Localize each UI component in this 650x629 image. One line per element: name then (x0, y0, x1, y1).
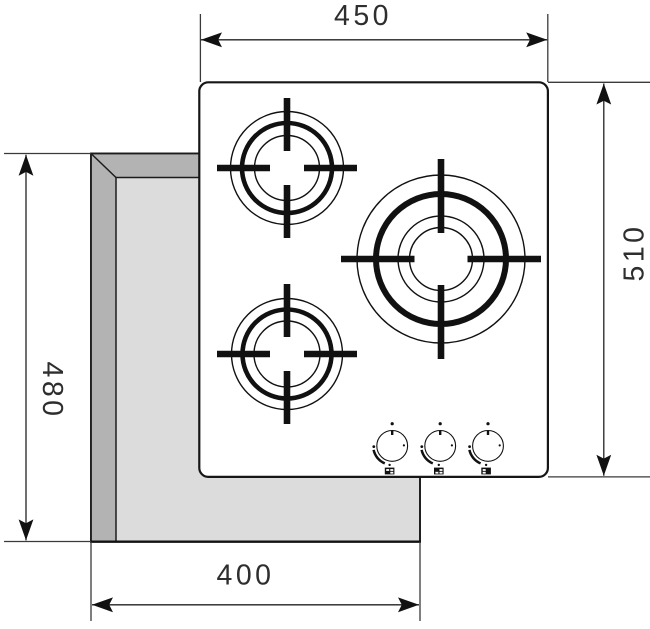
burner right (large): crosshair (341, 159, 541, 359)
burner bottom-left: crosshair (217, 284, 357, 424)
knob 1 burner icon (bottom-left filled) (385, 468, 395, 475)
cutout bottom edge (thicker) (90, 541, 421, 543)
dim 400: extension line left (90, 542, 92, 621)
burner top-left: inner thin ring (255, 136, 320, 201)
burner bottom-left: thick ring (243, 310, 332, 399)
knob 2 burner icon (top-left filled) (434, 468, 444, 475)
burner top-left: crosshair (217, 98, 357, 238)
dim 450: extension line right (547, 14, 549, 82)
bevel inner edge lines (116, 178, 420, 542)
dim 480: extension line bottom (4, 541, 91, 543)
burner top-left: outer thin ring (231, 112, 344, 225)
burner right (large): outer thin ring (357, 175, 525, 343)
countertop cutout (light gray interior) (91, 154, 420, 542)
hob body (white rounded panel) (199, 82, 548, 477)
dim 480: dimension line with arrows (25, 155, 27, 541)
control knob 3 (468, 422, 503, 466)
dim 510: extension line top (548, 81, 650, 83)
control knob 2 (420, 422, 455, 466)
svg-text:510: 510 (619, 223, 650, 281)
control knob 1 (372, 422, 407, 466)
svg-text:480: 480 (36, 361, 68, 419)
dim 400: extension line right (419, 542, 421, 621)
dim 510: extension line bottom (548, 476, 650, 478)
bevel miter diagonal (92, 154, 117, 178)
burner bottom-left: inner thin ring (254, 321, 320, 387)
dim 400: dimension line with arrows (92, 604, 419, 606)
burner right (large): thick ring (376, 194, 506, 324)
dim 480: extension line top (4, 153, 91, 155)
burner bottom-left: outer thin ring (232, 299, 343, 410)
burner right (large): inner thin ring (410, 228, 473, 291)
svg-text:400: 400 (216, 560, 274, 592)
dim 450: extension line left (199, 14, 201, 82)
dim 510: dimension line with arrows (603, 84, 605, 476)
knob 3 burner icon (right half filled) (481, 468, 491, 475)
cutout outer border (91, 154, 420, 542)
svg-text:450: 450 (334, 0, 392, 32)
burner right (large): middle thin ring (398, 216, 484, 302)
burner top-left: thick ring (242, 123, 332, 213)
countertop cutout bevel band (dark gray L-shape, left+top) (91, 154, 420, 542)
dim 450: dimension line with arrows (201, 39, 547, 41)
